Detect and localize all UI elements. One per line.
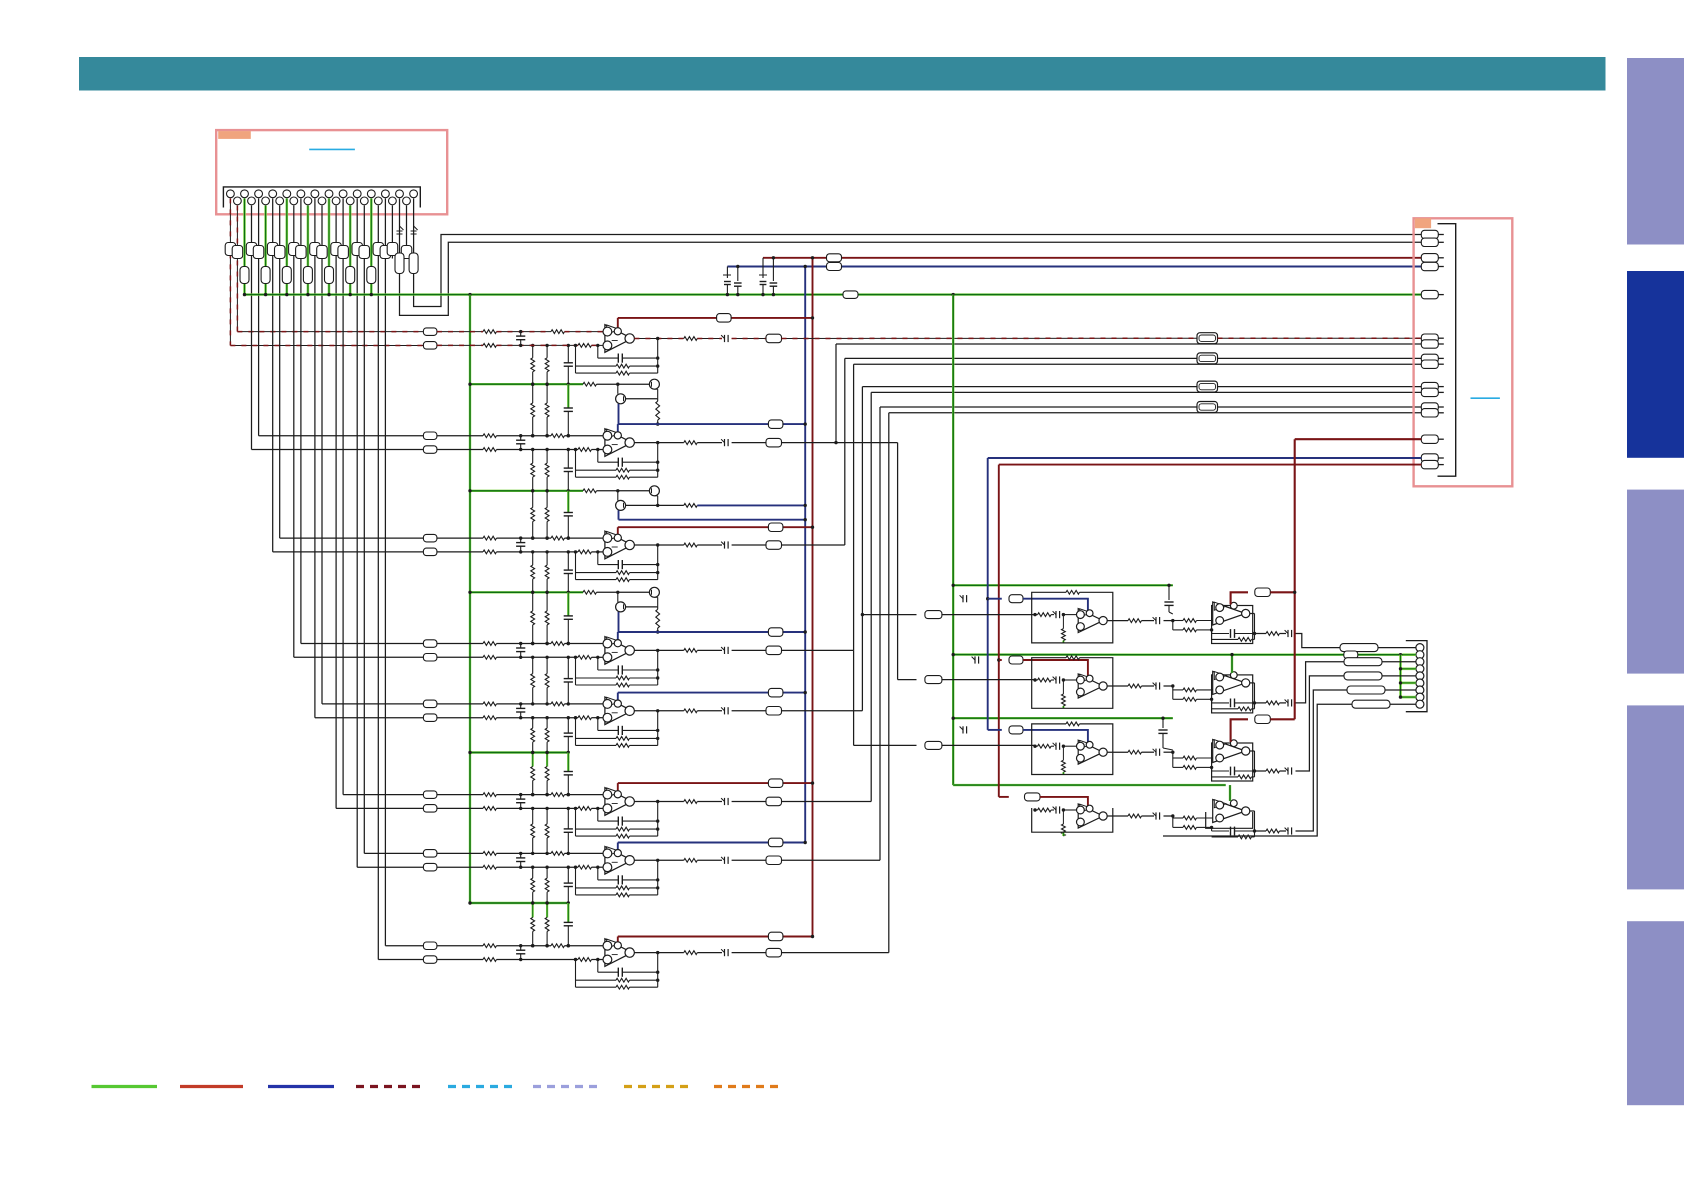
stage 2 feedback capacitor (597, 450, 599, 463)
wire: dark-red feed to buffer L2 (997, 658, 1000, 661)
stage 5 input coupling capacitor (520, 704, 522, 709)
stage 8 input line A (437, 945, 483, 947)
ladder-up resistor A (532, 657, 534, 673)
ladder-up resistor A (532, 345, 534, 357)
op-amp triangle (605, 637, 632, 665)
green bus resistor tag (843, 291, 858, 299)
op-amp buffer L4 (1078, 804, 1103, 828)
connector CN1 pin 9 (283, 190, 291, 198)
stage 2 output diode (697, 442, 722, 444)
wire: stage 6 input A horizontal (336, 807, 423, 809)
ladder capacitor (567, 903, 569, 922)
stage 1 feedback verticals (575, 345, 577, 373)
buffer R1 box (1212, 606, 1253, 644)
resistor tags on pair 3 (289, 243, 300, 256)
ladder-up resistor A (532, 867, 534, 878)
wire: R4 parallel input resistors (1172, 816, 1174, 827)
ladder-up resistor B (546, 718, 548, 728)
stage 6 feedback capacitor (597, 808, 599, 821)
wire: transistor interconnect (617, 491, 619, 501)
wire: green stub to CN3 pin (1401, 667, 1416, 670)
stage 6 output resistor (684, 800, 697, 804)
connector CN3 pin 7 (1416, 686, 1424, 694)
diode stub red rail to bus (762, 258, 764, 278)
wire: signal pair to stage 2 vertical A (251, 206, 253, 450)
op-amp buffer R2 (1213, 671, 1246, 694)
wire: ground pin 3 green vertical (243, 198, 246, 294)
op-amp input pin circles (603, 327, 612, 336)
resistor tags on pair 2 (267, 243, 278, 256)
wire: stage 3 input B horizontal (280, 537, 424, 539)
ladder-up capacitor (567, 552, 569, 570)
wire: signal pair to stage 5 vertical A (314, 198, 316, 717)
op-amp output pin circle (625, 646, 634, 655)
wire: navy feed to buffer L3 (988, 729, 1002, 731)
wire: buffer R3 red output to headphone rail (1231, 719, 1248, 742)
stage 6 input line B (437, 807, 483, 809)
diode stub navy rail to bus (726, 267, 728, 279)
stage 2 input line A (437, 435, 483, 437)
connector CN2 link underline (1471, 397, 1500, 399)
wire: stage 8 input A horizontal (378, 959, 423, 961)
stage 5 input line A (437, 703, 483, 705)
wire: buffer L1 input from bundle (862, 614, 916, 616)
buffer L2 input network (1035, 679, 1038, 681)
wire: stage 7 to CN2 pin (880, 406, 1421, 408)
stage 8 output node (634, 952, 683, 954)
ladder capacitor (567, 753, 569, 772)
stage 1 feedback capacitor (597, 345, 599, 358)
wire: navy to CN2 pin (988, 457, 1422, 459)
wire: buffer R4 to CN3 pin7 (1296, 690, 1348, 831)
resistor tags on pair 1 (246, 243, 256, 256)
connector CN1 pin 27 (410, 190, 418, 198)
legend: blue solid wire sample (268, 1085, 334, 1088)
stage 8 output tag (732, 952, 766, 954)
stage 4 input tags (423, 640, 437, 648)
wire: stage 5 to CN2 pin (862, 386, 1421, 388)
wire: stage 3 input A horizontal (273, 551, 424, 553)
wire: signal pair to stage 6 vertical A (335, 206, 337, 809)
wire: transistor source navy (618, 510, 620, 519)
stage 7 output tag (732, 859, 766, 861)
wire: stage4 vertical extension to buffer L3 (853, 650, 855, 745)
connector CN1 pin 16 (332, 197, 340, 205)
buffer L3 input network (1035, 745, 1038, 747)
stage 3 feedback resistor B (576, 579, 617, 581)
node: green bus to cluster green vertical (952, 293, 955, 296)
wire: green branch (RC only) (470, 751, 568, 753)
wire: pin2 dashed dark-red vertical (236, 206, 238, 332)
stage 6 input tags (423, 791, 437, 799)
ladder-up capacitor (567, 808, 569, 829)
wire: transistor interconnect (617, 592, 619, 602)
wire: green branch (470, 383, 583, 385)
wire: stage 8 input B horizontal (385, 945, 423, 947)
connector CN1 pin 4 (248, 197, 256, 205)
connector CN3 pin 9 (1416, 700, 1424, 708)
sidebar tab 1 (1627, 58, 1684, 245)
wire: stage 7 output run to bundle (782, 859, 881, 861)
stage 1 input tags (423, 342, 437, 350)
stage 4 output tag (732, 649, 766, 651)
wire: stage 8 output run to bundle (782, 952, 889, 954)
connector CN2 bracket (1438, 224, 1456, 477)
wire: stage 5 output run to bundle (782, 710, 863, 712)
op-amp buffer R1 (1213, 602, 1246, 625)
stage 1 input coupling capacitor (520, 332, 522, 337)
buffer L4 box (1032, 808, 1113, 832)
stage 4 output node (634, 649, 683, 651)
connector CN1 pin 15 (325, 190, 333, 198)
wire: green stub to CN3 pin (1401, 682, 1416, 685)
wire: R4 output resistor (1255, 830, 1267, 832)
wire: stage 3 output run to bundle (782, 544, 845, 546)
wire: buffer R3 to CN3 pin5 (1296, 676, 1345, 771)
stage 5 output node (634, 710, 683, 712)
ladder-up capacitor (567, 867, 569, 883)
transistor Q lower (616, 602, 626, 612)
wire: stage 6 bundle vertical (870, 392, 872, 801)
wire: green branch (RC only) (470, 902, 568, 904)
stage 1 output node (634, 338, 683, 340)
resistor on green wire 12 (303, 267, 312, 284)
connector CN1 pin 21 (367, 190, 375, 198)
connector CN2 pin y=242.3 (1421, 238, 1438, 246)
resistor on green wire 21 (367, 267, 376, 284)
connector CN2 outline box (1414, 218, 1513, 486)
test point mark pin25 (400, 226, 404, 230)
cap stub red rail to bus (772, 258, 774, 281)
connector CN1 pin 12 (304, 197, 312, 205)
wire: ground pin 12 green vertical (307, 206, 310, 295)
wire: navy distribution vertical (804, 267, 806, 843)
wire: buffer L2 to R2 (1107, 685, 1128, 687)
wire: green stub to CN3 pin (1401, 696, 1416, 699)
ladder-up resistor A (532, 718, 534, 728)
stage 8 input tags (423, 942, 437, 950)
connector CN1 pin 25 (396, 190, 404, 198)
wire: buffer L1 feed from stage5 vertical (861, 613, 864, 616)
ladder resistor B (546, 592, 548, 611)
op-amp triangle (605, 697, 632, 725)
wire: green branch to buffer R4 (953, 784, 1225, 786)
wire: green into buffer R4 (1229, 785, 1231, 801)
connector CN2 pin y=358.4 (1421, 354, 1438, 362)
wire: ground pin 18 green vertical (349, 206, 352, 295)
ladder resistor A (532, 592, 534, 611)
wire: stage 2 to CN2 pin (836, 343, 1421, 345)
op-amp input pin circles (603, 534, 612, 543)
ladder-up resistor B (546, 657, 548, 673)
wire: signal pair to stage 3 vertical B (279, 206, 281, 539)
op-amp triangle (605, 939, 632, 967)
ladder capacitor (567, 384, 569, 408)
wire: stage 4 bundle vertical (853, 364, 855, 650)
connector CN1 pin 8 (276, 197, 284, 205)
wire: stage 6 to CN2 pin (871, 391, 1421, 393)
header bar (79, 57, 1606, 91)
wire: rail navy to CN2 (727, 266, 1421, 268)
connector CN1 pin 3 (241, 190, 249, 198)
stage 4 feedback capacitor (597, 657, 599, 670)
wire: ground pin 21 green vertical (370, 198, 373, 294)
wire: signal pair to stage 6 vertical B (342, 198, 344, 794)
stage 5 output tag (732, 710, 766, 712)
wire: stage 7 blue feed (618, 842, 805, 844)
wire: green branch to buffer R1 (953, 584, 1173, 586)
wire: green branch to buffer R3 (953, 717, 1173, 719)
connector CN3 pin 3 (1416, 658, 1424, 666)
op-amp chopper mark (607, 429, 620, 438)
wire: stage 2 bundle vertical (835, 344, 837, 443)
legend: light-purple dashed wire sample (533, 1085, 601, 1088)
capacitor green to buffer R3 (1162, 718, 1164, 728)
wire: buffer R1 to CN3 pin1 (1296, 634, 1341, 648)
op-amp chopper mark (607, 637, 620, 646)
stage 7 input line B (437, 866, 483, 868)
resistor tags on pair 7 (373, 243, 384, 256)
stage 3 feedback verticals (575, 552, 577, 580)
connector CN2 pin y=458.0 (1421, 454, 1438, 462)
wire: transistor interconnect (617, 384, 619, 394)
wire: signal pair to stage 5 vertical B (321, 206, 323, 704)
wire: stage 4 input B horizontal (301, 643, 424, 645)
ladder resistor A (532, 491, 534, 508)
wire: buffer L2 input from bundle (898, 679, 917, 681)
wire: pin1 dashed dark-red vertical (229, 198, 231, 345)
legend: green solid wire sample (92, 1085, 158, 1088)
resistor on green wire 15 (325, 267, 334, 284)
wire: R3 parallel input resistors (1172, 752, 1174, 767)
wire: stage 8 bundle vertical (888, 413, 890, 953)
resistor tags on pair 6 (352, 243, 363, 256)
op-amp chopper mark (607, 697, 620, 706)
stage 2 feedback resistor A (576, 469, 617, 471)
op-amp input pin circles (603, 431, 612, 440)
op-amp input pin circles (603, 941, 612, 950)
connector CN3 pin 4 (1416, 665, 1424, 673)
buffer L3 box (1032, 724, 1113, 775)
stage 7 input line A (437, 852, 483, 854)
wire: stage 2 input A horizontal (252, 449, 424, 451)
wire: transistor output navy (658, 504, 684, 506)
sidebar tab 2 (active) (1627, 271, 1684, 458)
wire: cluster return to CN3 pin9 (1163, 704, 1352, 836)
stage 5 feedback verticals (575, 718, 577, 746)
op-amp chopper mark (607, 788, 620, 797)
wire: stage 5 input A horizontal (315, 717, 424, 719)
stage 6 input coupling capacitor (520, 795, 522, 800)
transistor Q lower (616, 500, 626, 510)
legend: orange dashed wire sample (714, 1085, 778, 1088)
wire: stage 6 output run to bundle (782, 801, 872, 803)
ladder-up resistor B (546, 867, 548, 878)
connector CN1 pin 11 (297, 190, 305, 198)
wire: stage 4 output run to bundle (782, 649, 854, 651)
buffer R4 box (1206, 812, 1253, 828)
wire: stage 4 to CN2 pin (854, 363, 1422, 365)
resistor tags on pins 24/26 (387, 243, 398, 256)
wire: headphone dark-red vertical (1294, 439, 1296, 719)
resistor tags on pair 4 (310, 243, 321, 256)
resistor transistor to next stage wire (657, 399, 659, 401)
resistor on transistor output (684, 504, 697, 508)
buffer R3 feedback (1211, 767, 1213, 771)
stage 3 input coupling capacitor (520, 538, 522, 543)
stage 3 output resistor (684, 543, 697, 547)
connector CN2 pin y=344.0 (1421, 340, 1438, 348)
resistor on green wire 3 (240, 267, 249, 284)
stage 1 feedback resistor A (576, 365, 617, 367)
green tag to CN3 pin2 (1344, 651, 1358, 659)
resistor tags on dashed input pair (225, 243, 236, 256)
connector CN1 pin 24 (389, 197, 397, 205)
ladder-up capacitor (567, 718, 569, 733)
resistor on green wire 6 (261, 267, 270, 284)
wire: ground pin 6 green vertical (264, 206, 267, 295)
buffer L4 input network (1035, 809, 1038, 811)
ladder-up capacitor (567, 345, 569, 362)
stage 3 output node (634, 544, 683, 546)
op-amp output pin circle (625, 438, 634, 447)
ladder-up capacitor (567, 657, 569, 678)
stage 1 output diode (697, 338, 722, 340)
legend: cyan dashed wire sample (448, 1085, 512, 1088)
buffer L2 bias resistor (1062, 680, 1064, 694)
connector CN3 pin 1 (1416, 644, 1424, 652)
ladder-up resistor A (532, 552, 534, 565)
wire: stage 7 bundle vertical (879, 407, 881, 860)
capacitor green to buffer R1 (1168, 585, 1170, 600)
stage 4 input line B (437, 656, 483, 658)
op-amp chopper mark (607, 847, 620, 856)
wire: signal pair to stage 3 vertical A (272, 198, 274, 552)
wire: buffer R2 to CN3 pin3 (1296, 662, 1345, 703)
connector CN1 bracket (223, 187, 420, 208)
wire: long green to small connector (953, 653, 1415, 656)
wire+resistor: pin27 to right connector line A (413, 198, 415, 253)
stage 1 input line A (437, 331, 483, 333)
op-amp output pin circle (625, 856, 634, 865)
stage 2 input line B (437, 449, 483, 451)
ladder resistor A (532, 384, 534, 403)
wire: buffer R1 red output to headphone rail (1231, 592, 1248, 604)
connector CN1 outline box (216, 130, 447, 214)
test point mark pin27 (414, 226, 418, 230)
ladder-up resistor B (546, 808, 548, 824)
wire: stage1 dashed input B horizontal (237, 331, 423, 333)
stage 3 input line B (437, 551, 483, 553)
stage 7 feedback resistor B (576, 894, 617, 896)
ladder-up resistor A (532, 808, 534, 824)
stage 8 feedback resistor B (576, 986, 617, 988)
wire: headphone dark-red to CN2 pin (1295, 438, 1422, 440)
stage 6 output diode (697, 801, 722, 803)
stage 6 output tag (732, 801, 766, 803)
wire: R1 parallel input resistors (1172, 621, 1174, 630)
stage 5 input tags (423, 700, 437, 708)
stage 6 output node (634, 801, 683, 803)
ladder resistor B (546, 491, 548, 508)
resistor tags on pair 5 (331, 243, 342, 256)
wire: R1 output resistor (1255, 633, 1267, 635)
op-amp output pin circle (625, 334, 634, 343)
stage 6 input line A (437, 794, 483, 796)
stage 1 feedback resistor B (576, 372, 617, 374)
buffer L3 bias resistor (1062, 746, 1064, 760)
wire+resistor: pin25 to right connector line B (399, 198, 401, 253)
op-amp input pin circles (603, 700, 612, 709)
wire: navy feed to buffer L1 (986, 597, 989, 600)
connector CN1 pin 20 (360, 197, 368, 205)
connector CN2 pin y=338.2 (1421, 334, 1438, 342)
wire: stage 3 to CN2 pin (845, 357, 1422, 359)
wire: dark-red feed to buffer L4 (999, 796, 1009, 798)
connector CN1 pin 17 (339, 190, 347, 198)
op-amp triangle (605, 788, 632, 816)
buffer R4 feedback (1211, 827, 1213, 831)
stage 5 feedback capacitor (597, 718, 599, 731)
wire: buffer L3 input from bundle (854, 744, 917, 746)
op-amp input pin circles (603, 849, 612, 858)
stage 2 output tag (732, 442, 766, 444)
stage 1 output tag (732, 338, 766, 340)
connector CN1 link underline (309, 148, 355, 150)
buffer L4 bias resistor (1062, 810, 1064, 824)
buffer R1 feedback (1211, 630, 1213, 634)
wire: stage 8 to CN2 pin (889, 412, 1422, 414)
stage 4 feedback verticals (575, 657, 577, 685)
buffer L1 box (1032, 592, 1113, 643)
stage 3 feedback resistor A (576, 572, 617, 574)
wire: ground pin 9 green vertical (286, 198, 289, 294)
transistor Q lower (616, 394, 626, 404)
legend: red solid wire sample (180, 1085, 243, 1088)
sidebar tab 5 (1627, 921, 1684, 1105)
op-amp chopper mark (607, 325, 620, 334)
wire: stage 4 blue feed (618, 631, 805, 633)
ladder resistor B (546, 903, 548, 917)
wire: stage 6 input B horizontal (343, 794, 423, 796)
op-amp chopper mark (607, 532, 620, 541)
transistor Q upper (649, 486, 659, 496)
wire: ground pin 15 green vertical (328, 198, 331, 294)
connector CN2 pin y=364.2 (1421, 360, 1438, 368)
legend: dark-red dashed wire sample (356, 1085, 424, 1088)
wire: transistor source to next stage wire (618, 404, 620, 424)
ladder-up resistor B (546, 450, 548, 464)
wire: stage 2 output run to bundle (782, 442, 898, 444)
stage 4 feedback resistor A (576, 677, 617, 679)
wire: dark-red to CN2 pin (999, 464, 1422, 466)
wire: cluster green vertical (952, 295, 954, 785)
connector CN3 pin 8 (1416, 693, 1424, 701)
stage 6 feedback resistor A (576, 828, 617, 830)
stage 8 feedback resistor A (576, 979, 617, 981)
buffer R3 box (1212, 743, 1253, 781)
op-amp buffer R3 (1213, 740, 1246, 763)
op-amp output pin circle (625, 948, 634, 957)
wire: green branch (470, 591, 583, 593)
connector CN1 pin 23 (382, 190, 390, 198)
wire: dark-red cluster vertical (998, 465, 1000, 797)
op-amp buffer L2 (1078, 674, 1103, 698)
stage 7 output node (634, 859, 683, 861)
stage 8 input coupling capacitor (520, 946, 522, 951)
stage 4 input line A (437, 643, 483, 645)
buffer R2 feedback (1211, 699, 1213, 703)
